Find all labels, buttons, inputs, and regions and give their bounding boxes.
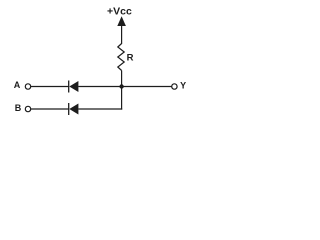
resistor R <box>118 44 134 71</box>
input terminal A <box>14 80 31 90</box>
supply arrow (to +Vcc) <box>117 16 126 44</box>
diode D1 (input A) <box>69 81 79 93</box>
svg-text:A: A <box>14 80 21 90</box>
svg-text:+Vcc: +Vcc <box>107 6 132 18</box>
wire: diode D1 to output node <box>78 86 171 88</box>
node: junction dot <box>119 84 123 88</box>
supply +Vcc label <box>107 6 132 18</box>
wire: diode D2 to riser corner <box>78 108 122 110</box>
wire: resistor bottom to junction <box>121 71 123 87</box>
input terminal B <box>15 103 31 113</box>
svg-text:R: R <box>127 52 134 63</box>
diode D2 (input B) <box>69 103 79 115</box>
wire: riser from B row up to junction <box>121 87 123 110</box>
svg-text:Y: Y <box>180 81 186 91</box>
svg-text:B: B <box>15 103 22 113</box>
wire: B terminal to diode D2 <box>31 108 69 110</box>
wire: A terminal to diode D1 <box>31 86 69 88</box>
output terminal Y <box>172 81 186 91</box>
